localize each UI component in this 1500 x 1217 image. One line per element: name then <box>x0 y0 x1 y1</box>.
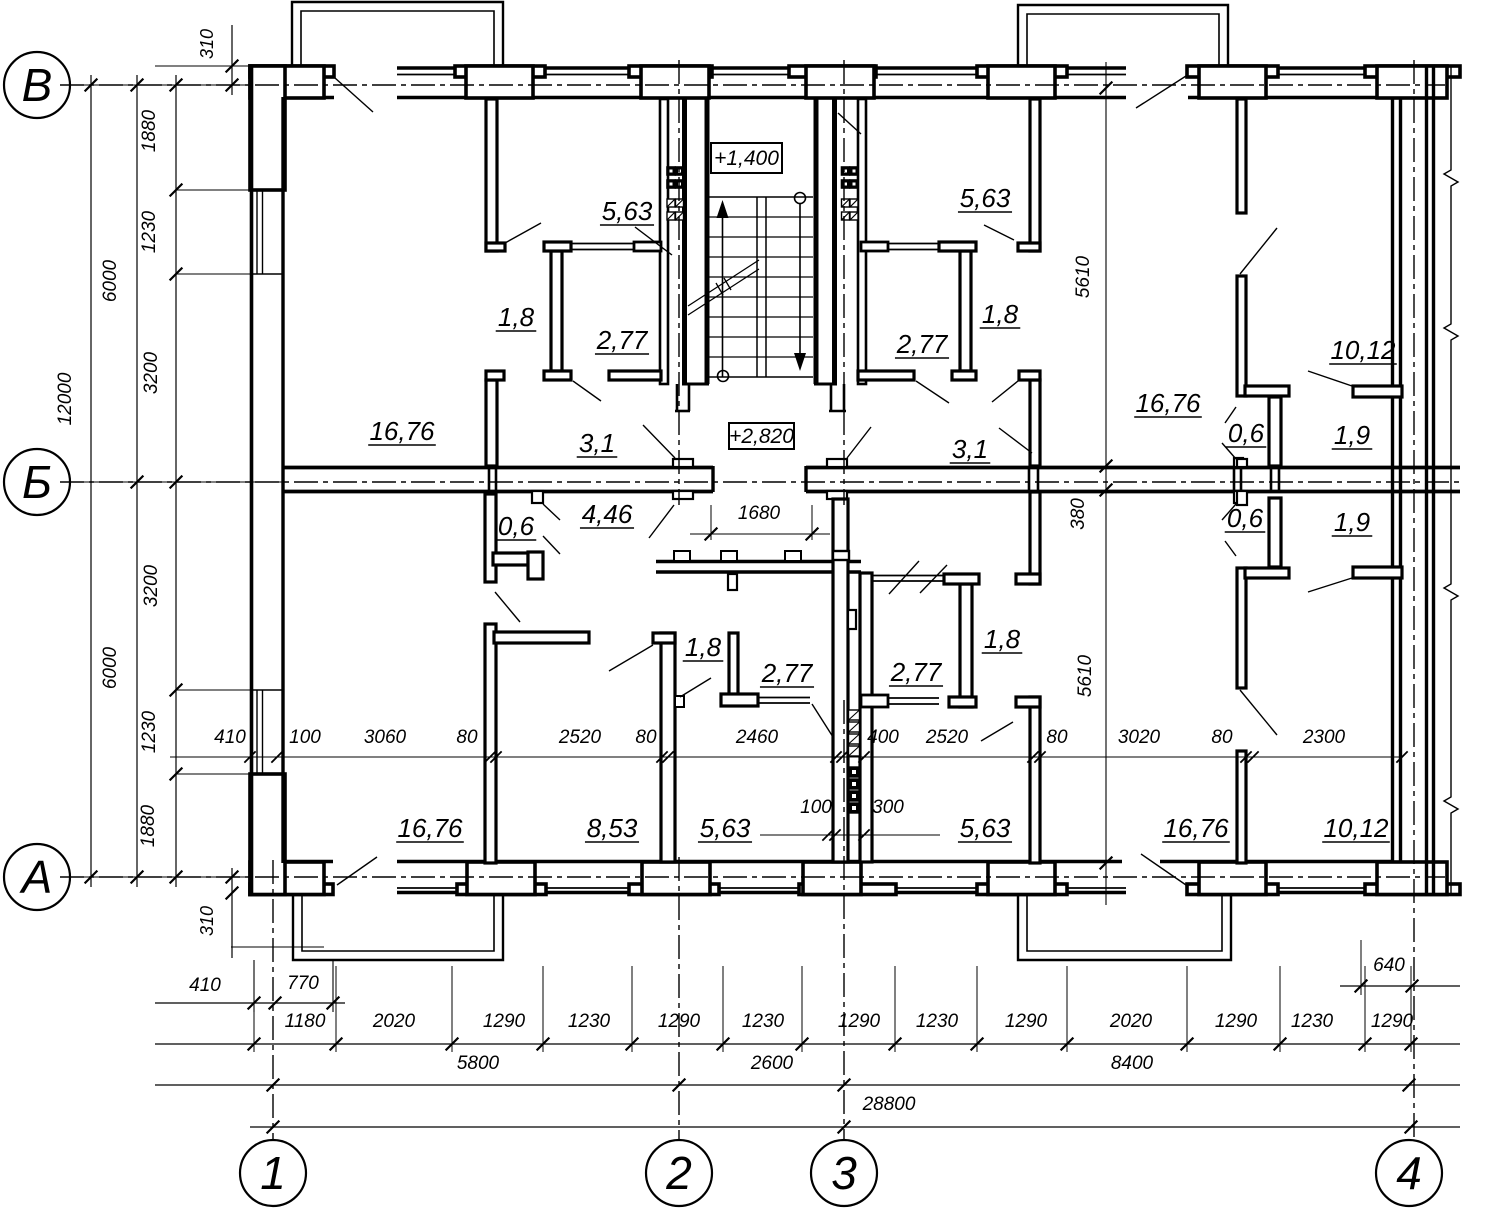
svg-text:80: 80 <box>1046 727 1068 748</box>
svg-text:16,76: 16,76 <box>369 416 435 446</box>
svg-text:80: 80 <box>456 727 478 748</box>
svg-text:2520: 2520 <box>925 727 969 748</box>
svg-text:+2,820: +2,820 <box>729 425 794 448</box>
svg-text:4: 4 <box>1396 1147 1422 1199</box>
svg-text:310: 310 <box>197 906 217 936</box>
svg-text:8400: 8400 <box>1111 1053 1154 1074</box>
svg-text:3,1: 3,1 <box>579 428 615 458</box>
svg-text:+1,400: +1,400 <box>714 147 779 170</box>
svg-text:2,77: 2,77 <box>896 329 949 359</box>
svg-text:В: В <box>22 59 53 111</box>
svg-text:1290: 1290 <box>838 1011 881 1032</box>
svg-text:1230: 1230 <box>568 1011 611 1032</box>
svg-text:3,1: 3,1 <box>952 434 988 464</box>
svg-text:1230: 1230 <box>742 1011 785 1032</box>
svg-text:1,8: 1,8 <box>982 299 1019 329</box>
svg-text:5,63: 5,63 <box>700 813 751 843</box>
svg-text:3200: 3200 <box>141 564 162 607</box>
svg-text:28800: 28800 <box>862 1094 916 1115</box>
svg-text:10,12: 10,12 <box>1323 813 1389 843</box>
svg-text:2020: 2020 <box>372 1011 416 1032</box>
svg-text:80: 80 <box>1211 727 1233 748</box>
svg-text:1290: 1290 <box>1371 1011 1414 1032</box>
svg-text:1,9: 1,9 <box>1334 420 1370 450</box>
svg-text:5610: 5610 <box>1073 255 1094 298</box>
svg-text:770: 770 <box>287 973 319 994</box>
svg-text:1,8: 1,8 <box>498 302 535 332</box>
svg-text:640: 640 <box>1373 955 1405 976</box>
svg-text:1230: 1230 <box>139 710 160 753</box>
svg-text:5800: 5800 <box>457 1053 500 1074</box>
svg-text:6000: 6000 <box>100 646 121 689</box>
svg-text:1: 1 <box>260 1147 286 1199</box>
svg-text:1230: 1230 <box>139 210 160 253</box>
svg-text:380: 380 <box>1068 498 1089 530</box>
svg-text:1230: 1230 <box>1291 1011 1334 1032</box>
svg-text:1290: 1290 <box>483 1011 526 1032</box>
svg-text:410: 410 <box>214 727 246 748</box>
svg-text:Б: Б <box>22 456 52 508</box>
svg-text:16,76: 16,76 <box>1135 388 1201 418</box>
svg-text:1,8: 1,8 <box>685 632 722 662</box>
svg-text:0,6: 0,6 <box>1227 503 1264 533</box>
svg-text:2,77: 2,77 <box>890 657 943 687</box>
svg-text:1,9: 1,9 <box>1334 507 1370 537</box>
svg-text:3020: 3020 <box>1118 727 1161 748</box>
svg-text:10,12: 10,12 <box>1330 335 1396 365</box>
svg-text:1230: 1230 <box>916 1011 959 1032</box>
svg-text:8,53: 8,53 <box>587 813 638 843</box>
svg-text:16,76: 16,76 <box>1163 813 1229 843</box>
svg-text:16,76: 16,76 <box>397 813 463 843</box>
svg-text:100: 100 <box>289 727 321 748</box>
svg-text:4,46: 4,46 <box>582 499 633 529</box>
svg-text:1290: 1290 <box>658 1011 701 1032</box>
svg-text:2: 2 <box>665 1147 692 1199</box>
svg-text:1680: 1680 <box>738 503 781 524</box>
svg-text:1290: 1290 <box>1005 1011 1048 1032</box>
svg-text:310: 310 <box>197 29 217 59</box>
svg-text:5,63: 5,63 <box>960 183 1011 213</box>
svg-text:300: 300 <box>872 797 904 818</box>
svg-text:410: 410 <box>189 975 221 996</box>
svg-text:2300: 2300 <box>1302 727 1346 748</box>
svg-text:6000: 6000 <box>100 259 121 302</box>
svg-text:3060: 3060 <box>364 727 407 748</box>
svg-text:5610: 5610 <box>1075 654 1096 697</box>
svg-text:2520: 2520 <box>558 727 602 748</box>
svg-text:2020: 2020 <box>1109 1011 1153 1032</box>
svg-text:2600: 2600 <box>750 1053 794 1074</box>
svg-text:2,77: 2,77 <box>596 325 649 355</box>
svg-text:0,6: 0,6 <box>1228 418 1265 448</box>
svg-text:1290: 1290 <box>1215 1011 1258 1032</box>
svg-text:1180: 1180 <box>285 1011 326 1032</box>
svg-text:3: 3 <box>831 1147 857 1199</box>
svg-text:100: 100 <box>800 797 832 818</box>
svg-text:1,8: 1,8 <box>984 624 1021 654</box>
svg-text:1880: 1880 <box>139 109 160 152</box>
svg-text:12000: 12000 <box>55 372 76 425</box>
svg-text:1880: 1880 <box>138 804 159 847</box>
svg-text:2460: 2460 <box>735 727 779 748</box>
svg-text:2,77: 2,77 <box>761 658 814 688</box>
svg-text:5,63: 5,63 <box>602 196 653 226</box>
svg-text:400: 400 <box>867 727 899 748</box>
svg-text:А: А <box>19 851 53 903</box>
svg-text:3200: 3200 <box>141 351 162 394</box>
svg-text:5,63: 5,63 <box>960 813 1011 843</box>
svg-text:80: 80 <box>635 727 657 748</box>
svg-text:0,6: 0,6 <box>498 511 535 541</box>
